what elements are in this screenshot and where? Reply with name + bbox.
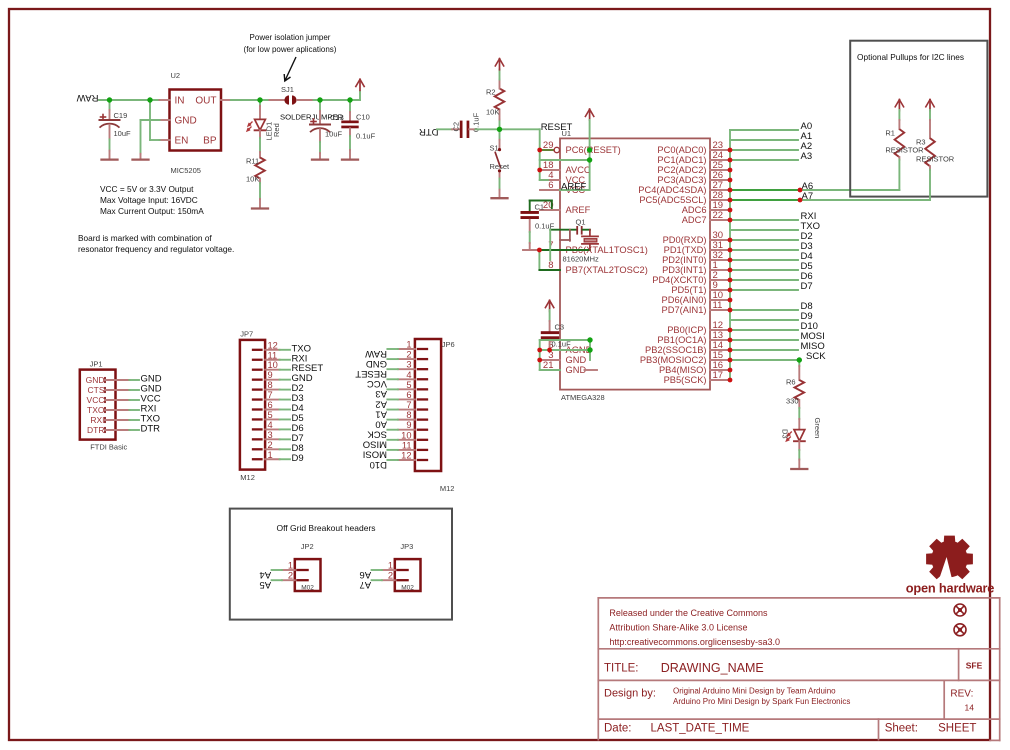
U2 GND pin wire xyxy=(160,119,170,121)
svg-text:AREF: AREF xyxy=(566,205,591,215)
wire OUT to SJ1 xyxy=(231,99,270,101)
svg-text:PD1(TXD): PD1(TXD) xyxy=(664,245,707,255)
U1 pin8 wire xyxy=(539,269,560,271)
wire D2 xyxy=(730,239,798,241)
LED D3 lower lead xyxy=(798,441,800,450)
svg-text:M12: M12 xyxy=(440,484,455,493)
junction dot xyxy=(498,148,501,151)
svg-text:10: 10 xyxy=(401,430,411,440)
svg-text:D10: D10 xyxy=(370,459,387,470)
svg-text:10K: 10K xyxy=(246,175,259,184)
junction dot xyxy=(587,157,592,162)
svg-text:JP6: JP6 xyxy=(442,340,455,349)
svg-text:ADC6: ADC6 xyxy=(682,205,707,215)
wire A7 dark xyxy=(730,199,800,201)
junction dot xyxy=(728,238,733,243)
svg-text:S1: S1 xyxy=(490,144,499,153)
connector JP7 box xyxy=(240,340,265,470)
JP6 pin 11 xyxy=(418,449,427,451)
svg-text:JP2: JP2 xyxy=(301,542,314,551)
svg-text:4: 4 xyxy=(268,420,273,430)
wire MISO xyxy=(730,349,798,351)
svg-text:C10: C10 xyxy=(356,113,370,122)
svg-text:RESISTOR: RESISTOR xyxy=(916,155,955,164)
svg-text:Q1: Q1 xyxy=(576,218,586,227)
JP7 pin 7 xyxy=(253,398,262,400)
svg-text:9: 9 xyxy=(406,420,411,430)
svg-text:OUT: OUT xyxy=(195,96,216,107)
resistor R3 xyxy=(929,110,931,120)
arrow to SJ1 xyxy=(284,57,296,81)
LED LED1 xyxy=(259,100,261,106)
svg-text:LAST_DATE_TIME: LAST_DATE_TIME xyxy=(651,723,750,735)
ground under R11 xyxy=(252,207,268,209)
svg-text:A6: A6 xyxy=(359,569,371,580)
JP2 pin 2 xyxy=(297,579,307,581)
svg-text:Attribution Share-Alike 3.0 Li: Attribution Share-Alike 3.0 License xyxy=(609,622,747,632)
junction dot xyxy=(498,169,501,172)
svg-text:D9: D9 xyxy=(292,453,304,464)
JP7 pin 3 xyxy=(253,438,262,440)
svg-text:6: 6 xyxy=(268,400,273,410)
switch S1 xyxy=(499,129,501,140)
svg-text:PD3(INT1): PD3(INT1) xyxy=(662,265,706,275)
svg-text:AREF: AREF xyxy=(561,181,587,192)
junction dot xyxy=(728,278,733,283)
svg-text:PB3(MOSIOC2): PB3(MOSIOC2) xyxy=(640,355,707,365)
junction dot xyxy=(728,158,733,163)
U1 right pin numbers xyxy=(713,140,724,381)
svg-text:GND: GND xyxy=(366,358,387,369)
svg-text:3: 3 xyxy=(406,360,411,370)
JP6 pin 6 xyxy=(418,398,427,400)
wire A0 xyxy=(730,129,798,131)
VCC arrow above R1 xyxy=(898,100,900,111)
U1 right pin names xyxy=(638,145,706,385)
U1 right pin junctions xyxy=(0,0,1,1)
JP7 pin 6 xyxy=(253,408,262,410)
JP6 pin 7 xyxy=(418,408,427,410)
JP7 pin 11 xyxy=(253,359,262,361)
VCC arrow above R3 xyxy=(929,100,931,111)
svg-text:5: 5 xyxy=(268,410,273,420)
svg-text:2: 2 xyxy=(388,571,393,581)
svg-text:5: 5 xyxy=(406,380,411,390)
solder jumper SJ1 xyxy=(270,99,285,101)
svg-text:PC1(ADC1): PC1(ADC1) xyxy=(657,155,706,165)
svg-text:VCC: VCC xyxy=(87,395,105,405)
JP7 pin 2 xyxy=(253,448,262,450)
wire RXI xyxy=(730,219,798,221)
wire RAW to U2 IN xyxy=(99,99,160,101)
capacitor C3 xyxy=(549,310,551,321)
junction dot xyxy=(537,168,542,173)
junction dot xyxy=(537,148,542,153)
svg-text:PD0(RXD): PD0(RXD) xyxy=(663,235,707,245)
wire over pin 29 stub xyxy=(540,149,554,151)
JP7 pin 4 xyxy=(253,428,262,430)
svg-text:9: 9 xyxy=(268,370,273,380)
svg-text:12: 12 xyxy=(268,340,278,350)
U2 pin names xyxy=(175,96,217,147)
svg-text:10: 10 xyxy=(268,360,278,370)
svg-text:A3: A3 xyxy=(375,388,387,399)
svg-text:PD7(AIN1): PD7(AIN1) xyxy=(662,305,707,315)
svg-text:PD6(AIN0): PD6(AIN0) xyxy=(662,295,707,305)
svg-text:AVCC: AVCC xyxy=(566,165,591,175)
JP6 pin 1 xyxy=(418,348,427,350)
svg-text:VCC: VCC xyxy=(367,378,387,389)
capacitor C10 xyxy=(349,100,351,112)
svg-text:81620MHz: 81620MHz xyxy=(563,255,600,264)
note power isolation jumper xyxy=(244,33,337,54)
svg-text:SFE: SFE xyxy=(966,661,983,671)
junction dot xyxy=(497,127,502,132)
svg-text:Green: Green xyxy=(813,418,822,439)
svg-text:C2: C2 xyxy=(452,122,461,132)
svg-text:2: 2 xyxy=(288,571,293,581)
title block outline xyxy=(598,598,999,741)
wire RESET down to pin 29 xyxy=(539,129,541,180)
svg-text:DTR: DTR xyxy=(419,126,439,137)
svg-text:D3: D3 xyxy=(781,429,790,439)
svg-text:Max Current Output: 150mA: Max Current Output: 150mA xyxy=(100,206,204,216)
svg-text:VCC = 5V or 3.3V Output: VCC = 5V or 3.3V Output xyxy=(100,184,194,194)
svg-text:A3: A3 xyxy=(801,151,813,162)
JP7 pin 9 xyxy=(253,378,262,380)
junction dot xyxy=(728,268,733,273)
svg-text:PD4(XCKT0): PD4(XCKT0) xyxy=(652,275,706,285)
ground under C10 xyxy=(342,158,358,160)
svg-text:10K: 10K xyxy=(486,108,499,117)
svg-text:CTS: CTS xyxy=(88,385,105,395)
svg-text:Original Arduino Mini Design b: Original Arduino Mini Design by Team Ard… xyxy=(673,687,836,696)
junction dot xyxy=(728,208,733,213)
wire A6 dark xyxy=(730,189,800,191)
wire D8 xyxy=(730,309,798,311)
svg-text:0.1uF: 0.1uF xyxy=(356,132,376,141)
svg-text:A4: A4 xyxy=(259,569,271,580)
svg-text:2: 2 xyxy=(268,440,273,450)
svg-text:M12: M12 xyxy=(240,473,255,482)
wire D4 xyxy=(730,259,798,261)
svg-text:PD5(T1): PD5(T1) xyxy=(671,285,706,295)
svg-text:8: 8 xyxy=(268,380,273,390)
junction dot xyxy=(537,248,542,253)
svg-text:Board is marked with combinati: Board is marked with combination of xyxy=(78,233,212,243)
svg-text:PB0(ICP): PB0(ICP) xyxy=(667,325,706,335)
wire D9 xyxy=(730,319,798,321)
svg-text:PC6(RESET): PC6(RESET) xyxy=(566,145,621,155)
svg-text:RXI: RXI xyxy=(90,415,104,425)
svg-text:TITLE:: TITLE: xyxy=(604,663,639,675)
svg-text:U1: U1 xyxy=(562,129,572,138)
JP7 pin 5 xyxy=(253,418,262,420)
svg-text:RESISTOR: RESISTOR xyxy=(885,146,924,155)
svg-text:A7: A7 xyxy=(359,579,371,590)
svg-text:DRAWING_NAME: DRAWING_NAME xyxy=(661,661,764,675)
junction dot xyxy=(728,248,733,253)
wire MOSI xyxy=(730,339,798,341)
wire A1 xyxy=(730,139,798,141)
junction dot xyxy=(728,338,733,343)
regulator U2 box xyxy=(170,90,222,151)
capacitor C19 xyxy=(109,100,111,110)
JP6 pin 10 xyxy=(418,439,427,441)
svg-text:SHEET: SHEET xyxy=(938,723,976,735)
U2 EN pin wire xyxy=(160,139,170,141)
VCC arrow at U1 xyxy=(589,109,591,120)
off grid headers box xyxy=(230,509,452,620)
svg-text:Red: Red xyxy=(272,123,281,137)
svg-text:PC0(ADC0): PC0(ADC0) xyxy=(657,145,706,155)
ground under D3 xyxy=(791,468,807,470)
junction dot xyxy=(537,358,542,363)
JP7 pin 10 xyxy=(253,369,262,371)
svg-text:R11: R11 xyxy=(246,157,259,166)
JP6 pin 3 xyxy=(418,368,427,370)
JP6 pin 4 xyxy=(418,378,427,380)
junction dot xyxy=(347,97,352,102)
svg-text:ADC7: ADC7 xyxy=(682,215,707,225)
design by row xyxy=(604,687,850,707)
svg-text:DTR: DTR xyxy=(141,424,161,435)
JP6 pin 12 xyxy=(418,459,427,461)
junction dot xyxy=(587,347,592,352)
U2 IN pin stub xyxy=(160,99,170,101)
svg-text:Power isolation jumper: Power isolation jumper xyxy=(250,33,331,42)
JP7 pin 1 xyxy=(253,458,262,460)
svg-text:Sheet:: Sheet: xyxy=(885,723,918,735)
date row xyxy=(604,723,976,735)
wire SCK xyxy=(730,359,799,361)
svg-text:GND: GND xyxy=(566,365,587,375)
svg-text:6: 6 xyxy=(406,390,411,400)
wire A3 xyxy=(730,159,798,161)
svg-text:A5: A5 xyxy=(259,579,271,590)
svg-text:U2: U2 xyxy=(171,71,181,80)
junction dot xyxy=(728,288,733,293)
svg-text:Off Grid Breakout headers: Off Grid Breakout headers xyxy=(276,523,375,533)
ground under U2 GND xyxy=(133,158,149,160)
junction dot xyxy=(257,97,262,102)
svg-text:12: 12 xyxy=(401,450,411,460)
junction dot xyxy=(797,357,802,362)
junction dot xyxy=(728,298,733,303)
svg-text:1: 1 xyxy=(388,561,393,571)
svg-text:PB1(OC1A): PB1(OC1A) xyxy=(657,335,706,345)
svg-text:D7: D7 xyxy=(801,281,813,292)
junction dot xyxy=(537,348,542,353)
ground under C13 xyxy=(312,158,328,160)
svg-text:PC4(ADC4SDA): PC4(ADC4SDA) xyxy=(638,185,706,195)
capacitor C2 xyxy=(460,121,463,138)
capacitor C1 xyxy=(529,201,531,212)
svg-text:PC5(ADC5SCL): PC5(ADC5SCL) xyxy=(639,195,706,205)
svg-text:4: 4 xyxy=(406,370,411,380)
wire VCC down to pin 6 xyxy=(589,120,591,190)
svg-text:C1: C1 xyxy=(535,203,545,212)
connector JP2 box xyxy=(295,559,321,591)
svg-text:Date:: Date: xyxy=(604,723,632,735)
capacitor C13 xyxy=(319,100,321,111)
junction dot xyxy=(728,258,733,263)
svg-text:PC2(ADC2): PC2(ADC2) xyxy=(657,165,706,175)
junction dot xyxy=(728,198,733,203)
svg-text:A2: A2 xyxy=(375,398,387,409)
svg-text:SCK: SCK xyxy=(367,429,387,440)
wire A2 xyxy=(730,149,798,151)
JP6 pin 8 xyxy=(418,418,427,420)
svg-text:2: 2 xyxy=(406,350,411,360)
svg-text:M02: M02 xyxy=(401,585,414,592)
wire D7 xyxy=(730,289,798,291)
svg-text:open hardware: open hardware xyxy=(906,581,995,596)
svg-text:R6: R6 xyxy=(786,378,796,387)
svg-text:11: 11 xyxy=(268,350,278,360)
svg-text:Design by:: Design by: xyxy=(604,688,656,700)
svg-text:JP3: JP3 xyxy=(400,542,413,551)
open hardware logo gear xyxy=(926,536,973,580)
resonator Q1 xyxy=(550,227,598,260)
svg-text:PC3(ADC3): PC3(ADC3) xyxy=(657,175,706,185)
svg-text:REV:: REV: xyxy=(950,689,973,700)
wire reset node to U1 xyxy=(500,128,540,130)
U2 OUT pin stub xyxy=(221,99,231,101)
svg-text:PD2(INT0): PD2(INT0) xyxy=(662,255,706,265)
svg-text:JP1: JP1 xyxy=(90,359,103,368)
U1 pin 29 invert bubble xyxy=(554,147,559,152)
junction dot xyxy=(728,178,733,183)
VCC arrow above C3 xyxy=(549,300,551,311)
junction dot xyxy=(728,358,733,363)
svg-text:1: 1 xyxy=(288,561,293,571)
junction dot xyxy=(728,348,733,353)
U1 pin21 right stub xyxy=(585,369,598,371)
svg-text:GND: GND xyxy=(566,355,587,365)
wire C2 to reset node xyxy=(469,128,476,130)
resistor R6 xyxy=(798,360,800,366)
junction dot xyxy=(547,348,552,353)
note VCC output xyxy=(100,184,204,216)
svg-text:A1: A1 xyxy=(375,408,387,419)
svg-text:330: 330 xyxy=(786,397,799,406)
svg-text:MOSI: MOSI xyxy=(363,449,387,460)
junction dot xyxy=(587,147,592,152)
junction dot xyxy=(728,218,733,223)
svg-text:1: 1 xyxy=(406,340,411,350)
svg-text:29: 29 xyxy=(543,140,554,151)
svg-text:11: 11 xyxy=(402,440,412,450)
JP6 pin 5 xyxy=(418,388,427,390)
junction dot xyxy=(798,198,803,203)
svg-text:http:creativecommons.orglicens: http:creativecommons.orglicensesby-sa3.0 xyxy=(609,637,780,647)
ground bus wires at U1 xyxy=(540,340,590,370)
junction dot xyxy=(728,368,733,373)
U1 right pin stubs xyxy=(710,150,730,380)
svg-text:EN: EN xyxy=(175,136,189,147)
svg-text:FTDI Basic: FTDI Basic xyxy=(90,442,127,451)
junction dot xyxy=(107,97,112,102)
circle cross symbol 2 xyxy=(954,624,966,636)
connector JP3 box xyxy=(395,559,421,591)
svg-text:TXO: TXO xyxy=(87,405,105,415)
svg-text:GND: GND xyxy=(86,375,105,385)
svg-text:1: 1 xyxy=(268,450,273,460)
svg-text:14: 14 xyxy=(965,703,975,713)
ground under C19 xyxy=(102,158,118,160)
svg-text:R2: R2 xyxy=(486,88,496,97)
junction dot xyxy=(728,148,733,153)
svg-text:Optional Pullups for I2C lines: Optional Pullups for I2C lines xyxy=(857,52,964,62)
junction dot xyxy=(147,97,152,102)
wire A6 to R1 xyxy=(800,189,899,191)
U1 left pin names xyxy=(566,145,648,375)
note board marking xyxy=(78,233,234,254)
svg-text:BP: BP xyxy=(203,136,217,147)
wire D3 xyxy=(730,249,798,251)
junction dot xyxy=(728,308,733,313)
svg-text:IN: IN xyxy=(175,96,185,107)
svg-text:PB5(SCK): PB5(SCK) xyxy=(664,375,707,385)
svg-text:JP7: JP7 xyxy=(240,329,253,338)
svg-text:R3: R3 xyxy=(916,138,926,147)
wire SJ1 to VCC xyxy=(314,99,361,101)
wire TXO xyxy=(730,229,798,231)
connector JP1 box xyxy=(80,370,116,440)
svg-text:RAW: RAW xyxy=(365,348,387,359)
svg-text:A0: A0 xyxy=(375,418,387,429)
wire D10 xyxy=(730,329,798,331)
svg-text:17: 17 xyxy=(713,370,724,381)
JP3 pin 1 xyxy=(397,569,407,571)
svg-text:11: 11 xyxy=(713,300,723,311)
svg-text:C19: C19 xyxy=(114,111,128,120)
svg-text:M02: M02 xyxy=(301,585,314,592)
junction dot xyxy=(728,378,733,383)
svg-text:(for low power aplications): (for low power aplications) xyxy=(244,45,337,54)
svg-text:GND: GND xyxy=(175,116,197,127)
svg-text:6: 6 xyxy=(548,180,553,191)
VCC arrow at regulator output xyxy=(359,92,361,101)
wire D6 xyxy=(730,279,798,281)
JP6 pin 9 xyxy=(418,429,427,431)
IC U1 ATMEGA328 outline xyxy=(560,138,710,389)
wire D5 xyxy=(730,269,798,271)
JP7 pin 12 xyxy=(253,349,262,351)
svg-text:8: 8 xyxy=(406,410,411,420)
wire pin7 to pin8 xyxy=(538,250,540,270)
wire at pin 7 xyxy=(523,249,540,251)
svg-text:ATMEGA328: ATMEGA328 xyxy=(561,393,605,402)
wire AVCC branch xyxy=(540,159,590,161)
VCC arrow above R2 xyxy=(499,59,501,70)
U1 left pin stubs xyxy=(540,150,560,370)
svg-text:R1: R1 xyxy=(885,129,895,138)
junction dot xyxy=(728,188,733,193)
svg-text:Max Voltage Input: 16VDC: Max Voltage Input: 16VDC xyxy=(100,195,198,205)
svg-text:SJ1: SJ1 xyxy=(281,85,294,94)
junction dot xyxy=(798,188,803,193)
svg-text:Arduino Pro Mini Design by Spa: Arduino Pro Mini Design by Spark Fun Ele… xyxy=(673,697,850,706)
svg-text:RAW: RAW xyxy=(77,92,99,103)
circle cross symbol 1 xyxy=(954,604,966,616)
resistor R2 xyxy=(499,120,501,130)
JP2 pin 1 xyxy=(297,569,307,571)
svg-text:7: 7 xyxy=(406,400,411,410)
right vertical bus xyxy=(729,130,731,380)
svg-text:resonator frequency and regula: resonator frequency and regulator voltag… xyxy=(78,244,234,254)
